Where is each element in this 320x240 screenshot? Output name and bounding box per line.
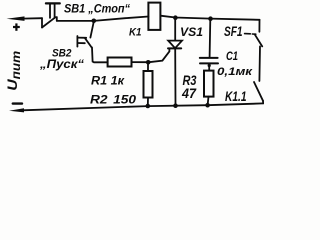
label R1 1k	[91, 74, 125, 88]
svg-text:SF1: SF1	[224, 24, 243, 39]
label R3	[183, 72, 197, 88]
wire R1 to gate node	[132, 61, 148, 63]
wire top rail middle	[57, 17, 149, 21]
svg-text:0,1мк: 0,1мк	[217, 66, 253, 78]
label 0,1mk	[217, 66, 253, 78]
svg-text:K1: K1	[129, 27, 142, 39]
node plus label	[13, 23, 20, 30]
node junction R3 bottom	[205, 103, 210, 108]
resistor R1	[108, 58, 132, 67]
svg-text:R2 150: R2 150	[90, 93, 136, 107]
label SB1 Stop	[64, 1, 130, 15]
label VS1	[180, 25, 203, 39]
resistor R2	[144, 64, 153, 106]
svg-text:Uпит: Uпит	[4, 50, 23, 90]
wire top rail left with + arrow terminal	[7, 16, 43, 21]
pushbutton SB1	[42, 3, 60, 27]
resistor R3	[204, 71, 214, 106]
node junction R2 bottom	[146, 104, 151, 109]
label SF1	[224, 24, 243, 39]
switch SF1	[245, 20, 263, 81]
thyristor VS1	[149, 18, 182, 106]
svg-text:C1: C1	[226, 49, 238, 63]
svg-text:VS1: VS1	[180, 25, 203, 39]
pushbutton SB2	[77, 22, 107, 63]
label 47	[181, 86, 197, 101]
svg-text:R1 1к: R1 1к	[91, 74, 125, 88]
relay coil K1	[148, 3, 160, 30]
capacitor C1	[200, 19, 218, 71]
label Upit rotated	[4, 50, 23, 90]
label K1.1	[225, 89, 247, 104]
label Pusk	[39, 57, 84, 71]
label C1	[226, 49, 238, 63]
svg-text:SB1 „Стоп“: SB1 „Стоп“	[64, 1, 130, 15]
svg-text:47: 47	[181, 86, 197, 101]
node junction VS1 anode	[173, 15, 178, 20]
label R2 150	[90, 93, 136, 107]
wire bottom rail with minus arrow terminal	[9, 103, 263, 112]
relay contact K1.1	[254, 82, 263, 103]
node minus label	[13, 102, 22, 104]
svg-text:K1.1: K1.1	[225, 89, 247, 104]
node junction C1 branch	[208, 16, 213, 21]
node junction VS1 cathode bottom	[173, 103, 178, 108]
label SB2	[52, 48, 72, 60]
node junction SB2 branch	[92, 19, 97, 24]
node gate junction	[146, 60, 151, 65]
svg-text:„Пуск“: „Пуск“	[39, 57, 84, 71]
wire top rail right	[160, 16, 259, 20]
label K1	[129, 27, 142, 39]
